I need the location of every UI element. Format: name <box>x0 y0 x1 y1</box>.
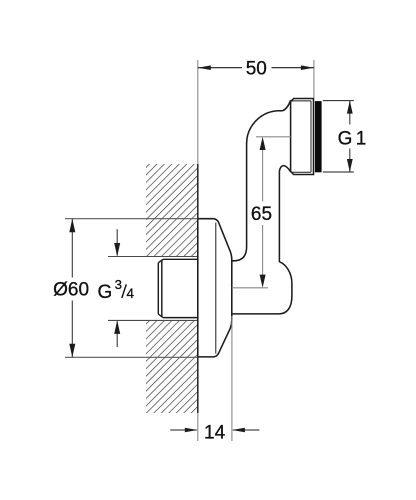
wall hole upper edge <box>108 256 198 258</box>
svg-text:50: 50 <box>246 59 267 80</box>
dim 50: right extension line <box>313 60 315 98</box>
G1 thread band (black) <box>315 101 322 172</box>
dim O60: dimension line <box>71 219 73 278</box>
dim 14: dimension line right segment with arrow <box>233 429 260 431</box>
wall face line <box>197 60 199 164</box>
rosette (escutcheon) outline <box>198 219 232 357</box>
rosette back edge at wall <box>197 219 199 357</box>
dim G1: extension ticks <box>323 100 354 102</box>
svg-text:G: G <box>98 282 113 303</box>
svg-text:3: 3 <box>115 277 122 292</box>
dim O60: arrows <box>69 219 75 233</box>
S-tube inner (right) contour <box>279 166 290 262</box>
dim 50: arrows <box>198 65 211 70</box>
dim O60: extension lines <box>65 218 198 220</box>
dim G1: arrows <box>347 101 353 114</box>
svg-text:Ø60: Ø60 <box>53 280 89 301</box>
svg-text:65: 65 <box>251 204 272 225</box>
centerline top port <box>256 136 291 138</box>
dim G1: dimension line <box>349 101 351 125</box>
svg-text:1: 1 <box>356 129 367 150</box>
dim G3/4: lower arrow <box>116 321 118 347</box>
svg-text:G: G <box>338 129 353 150</box>
dim 65: dimension line <box>262 148 264 202</box>
svg-text:14: 14 <box>204 423 226 444</box>
bottom port body with dome end <box>232 247 292 314</box>
union nut G1 <box>291 99 314 175</box>
rosette rim line <box>215 223 217 354</box>
wall hole lower edge <box>108 319 198 321</box>
wall hatch upper block <box>146 164 198 257</box>
dim 65: arrows <box>260 137 266 150</box>
svg-text:4: 4 <box>127 286 135 301</box>
dim G3/4: upper arrow <box>116 229 118 255</box>
dim 14: rosette front extension line <box>231 316 233 441</box>
dim 50: dimension line <box>198 67 242 69</box>
nut chamfer inner lines <box>291 101 311 172</box>
S-tube outer (left/top) contour <box>247 100 291 246</box>
G3/4 male thread <box>158 259 198 317</box>
dim 14: dimension line left segment with arrow <box>170 429 197 431</box>
wall hatch lower block <box>146 320 198 413</box>
centerline bottom port <box>232 287 268 289</box>
